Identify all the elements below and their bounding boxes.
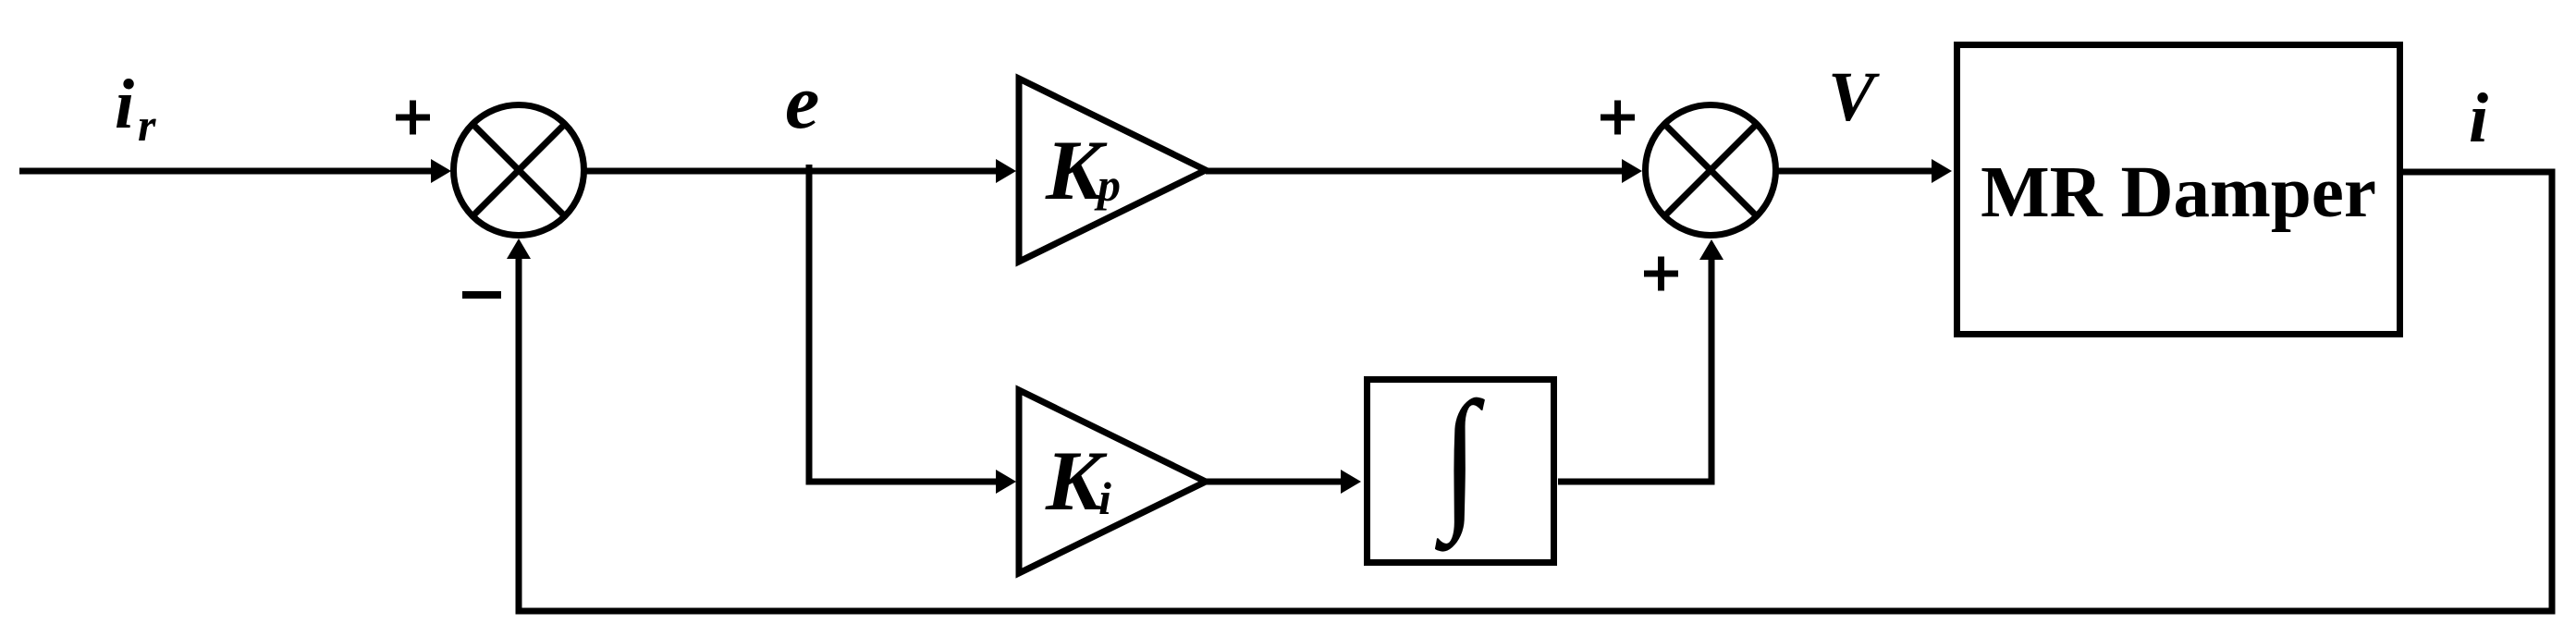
svg-text:r: r — [138, 99, 156, 151]
summing junction 1 (circle with X) — [454, 105, 584, 236]
svg-text:e: e — [785, 59, 819, 145]
block MR Damper — [1957, 45, 2400, 335]
wire: integrator output up to summing junction 2 — [1558, 239, 1723, 482]
label + (plus at summing junction 1 input) — [396, 101, 430, 135]
summing junction 2 (circle with X) — [1646, 105, 1776, 236]
label i_r (reference input) — [115, 66, 156, 151]
wire: Ki output to integrator block — [1206, 470, 1361, 494]
gain block Ki (triangle amplifier) — [1019, 390, 1206, 573]
svg-text:i: i — [2469, 79, 2488, 157]
block integrator (integral box) — [1368, 369, 1554, 562]
wire: summing junction 2 to MR Damper block (signal V) — [1778, 159, 1952, 183]
wire: input i_r into summing junction 1 — [19, 159, 451, 183]
gain block Kp (triangle amplifier) — [1019, 79, 1206, 262]
svg-text:MR Damper: MR Damper — [1981, 153, 2376, 233]
svg-text:p: p — [1094, 159, 1121, 211]
svg-text:V: V — [1828, 58, 1880, 136]
svg-text:∫: ∫ — [1434, 369, 1485, 552]
wire: branch from node e down to Ki gain — [806, 165, 1017, 494]
label + (plus at summing junction 2 left input) — [1601, 101, 1635, 135]
wire: Kp output to summing junction 2 — [1206, 159, 1642, 183]
svg-text:i: i — [115, 66, 134, 143]
label - (minus at feedback input of summing junction 1) — [462, 291, 501, 299]
label + (plus at summing junction 2 bottom input) — [1644, 257, 1678, 291]
svg-text:i: i — [1098, 472, 1111, 524]
wire: MR Damper output i and feedback loop to summing junction 1 — [507, 172, 2552, 611]
wire: summing junction 1 to Kp gain — [586, 159, 1016, 183]
